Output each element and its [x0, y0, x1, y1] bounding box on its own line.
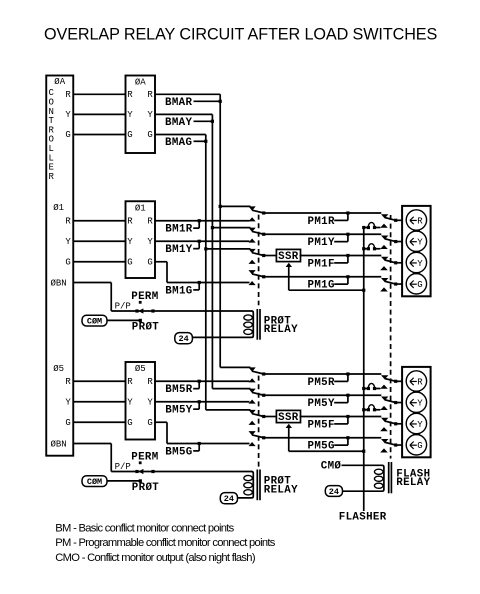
svg-text:PM1Y: PM1Y — [308, 237, 335, 249]
svg-text:R: R — [417, 216, 423, 226]
svg-text:FLASHER: FLASHER — [339, 512, 387, 524]
svg-text:R: R — [49, 172, 55, 182]
svg-text:Y: Y — [417, 259, 423, 269]
svg-text:PM5F: PM5F — [308, 419, 335, 431]
svg-text:Y: Y — [127, 110, 133, 120]
svg-text:ØA: ØA — [135, 77, 146, 87]
svg-text:Y: Y — [147, 110, 153, 120]
svg-text:BM - Basic conflict monitor co: BM - Basic conflict monitor connect poin… — [55, 522, 234, 534]
svg-text:R: R — [147, 216, 153, 226]
svg-text:RELAY: RELAY — [264, 484, 298, 496]
svg-text:R: R — [127, 90, 133, 100]
svg-text:BMAY: BMAY — [165, 117, 192, 129]
svg-text:R: R — [147, 90, 153, 100]
svg-text:24: 24 — [329, 487, 339, 497]
svg-text:R: R — [147, 377, 153, 387]
svg-text:RELAY: RELAY — [264, 324, 298, 336]
svg-text:PERM: PERM — [131, 452, 158, 464]
svg-text:P/P: P/P — [115, 462, 131, 472]
svg-text:Ø1: Ø1 — [135, 203, 146, 213]
svg-text:G: G — [127, 257, 132, 267]
svg-text:CMØ: CMØ — [321, 460, 342, 472]
svg-text:Ø5: Ø5 — [53, 364, 64, 374]
svg-text:BM5Y: BM5Y — [165, 405, 192, 417]
svg-text:PM5Y: PM5Y — [308, 398, 335, 410]
svg-text:BMAR: BMAR — [165, 97, 192, 109]
svg-text:ØBN: ØBN — [51, 278, 67, 288]
svg-text:CMO - Conflict monitor output: CMO - Conflict monitor output (also nigh… — [55, 552, 256, 564]
svg-text:SSR: SSR — [278, 251, 299, 263]
svg-text:RELAY: RELAY — [396, 477, 430, 489]
svg-text:SSR: SSR — [278, 412, 299, 424]
svg-text:Y: Y — [127, 237, 133, 247]
svg-text:Y: Y — [65, 237, 71, 247]
svg-text:Y: Y — [147, 397, 153, 407]
svg-text:G: G — [147, 257, 152, 267]
svg-text:BMAG: BMAG — [165, 137, 192, 149]
svg-text:Y: Y — [65, 397, 71, 407]
svg-text:G: G — [147, 418, 152, 428]
svg-text:Y: Y — [65, 110, 71, 120]
svg-text:R: R — [65, 377, 71, 387]
svg-text:24: 24 — [224, 494, 234, 504]
svg-text:BM1R: BM1R — [165, 224, 192, 236]
svg-text:PM1F: PM1F — [308, 258, 335, 270]
svg-text:Ø1: Ø1 — [53, 203, 64, 213]
svg-text:PERM: PERM — [131, 291, 158, 303]
svg-text:Y: Y — [127, 397, 133, 407]
svg-text:G: G — [417, 280, 422, 290]
svg-text:BM1Y: BM1Y — [165, 244, 192, 256]
svg-text:CØM: CØM — [87, 477, 102, 487]
svg-text:G: G — [147, 130, 152, 140]
svg-text:PM1R: PM1R — [308, 216, 335, 228]
svg-text:R: R — [65, 90, 71, 100]
svg-text:PRØT: PRØT — [132, 482, 159, 494]
svg-text:BM5G: BM5G — [165, 446, 192, 458]
svg-text:PM - Programmable conflict mon: PM - Programmable conflict monitor conne… — [55, 537, 275, 549]
svg-text:Y: Y — [147, 237, 153, 247]
svg-text:G: G — [127, 130, 132, 140]
svg-text:R: R — [127, 377, 133, 387]
svg-text:G: G — [65, 418, 70, 428]
svg-text:ØBN: ØBN — [51, 440, 67, 450]
svg-text:PRØT: PRØT — [132, 322, 159, 334]
svg-text:OVERLAP RELAY CIRCUIT AFTER LO: OVERLAP RELAY CIRCUIT AFTER LOAD SWITCHE… — [44, 26, 437, 44]
svg-text:Y: Y — [417, 420, 423, 430]
svg-text:Ø5: Ø5 — [135, 364, 146, 374]
svg-text:Y: Y — [417, 238, 423, 248]
svg-text:BM5R: BM5R — [165, 384, 192, 396]
svg-text:BM1G: BM1G — [165, 285, 192, 297]
svg-text:ØA: ØA — [54, 77, 65, 87]
svg-text:G: G — [65, 130, 70, 140]
svg-text:G: G — [417, 441, 422, 451]
svg-text:P/P: P/P — [115, 302, 131, 312]
svg-text:R: R — [65, 216, 71, 226]
svg-text:Y: Y — [417, 399, 423, 409]
svg-text:G: G — [65, 257, 70, 267]
svg-text:24: 24 — [178, 334, 188, 344]
svg-text:G: G — [127, 418, 132, 428]
svg-text:CØM: CØM — [87, 316, 102, 326]
svg-text:R: R — [417, 377, 423, 387]
svg-text:R: R — [127, 216, 133, 226]
svg-text:PM5R: PM5R — [308, 377, 335, 389]
